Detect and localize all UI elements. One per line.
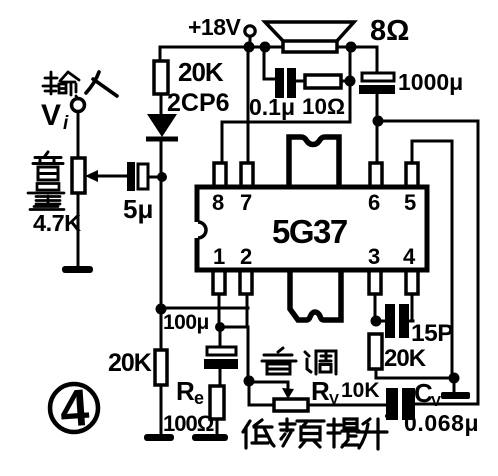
svg-text:10K: 10K bbox=[341, 379, 380, 402]
svg-text:20K: 20K bbox=[384, 345, 427, 372]
svg-text:V: V bbox=[329, 391, 339, 408]
svg-text:5μ: 5μ bbox=[123, 194, 153, 224]
svg-text:5: 5 bbox=[404, 190, 416, 215]
svg-text:4: 4 bbox=[403, 244, 416, 269]
svg-text:6: 6 bbox=[368, 190, 380, 215]
svg-text:1: 1 bbox=[213, 244, 225, 269]
svg-text:4: 4 bbox=[58, 379, 91, 439]
svg-text:0.068μ: 0.068μ bbox=[404, 410, 479, 436]
svg-text:V: V bbox=[431, 393, 441, 410]
svg-text:2CP6: 2CP6 bbox=[167, 89, 230, 117]
svg-text:0.1μ: 0.1μ bbox=[249, 94, 295, 120]
svg-text:e: e bbox=[194, 388, 204, 408]
svg-text:100Ω: 100Ω bbox=[163, 411, 214, 436]
svg-text:20K: 20K bbox=[108, 349, 152, 377]
svg-text:8Ω: 8Ω bbox=[370, 15, 409, 47]
svg-text:+18V: +18V bbox=[188, 14, 242, 40]
svg-text:2: 2 bbox=[240, 244, 252, 269]
svg-text:20K: 20K bbox=[178, 57, 224, 87]
svg-text:5G37: 5G37 bbox=[272, 213, 347, 250]
svg-text:10Ω: 10Ω bbox=[302, 94, 345, 119]
svg-text:100μ: 100μ bbox=[163, 311, 209, 334]
svg-text:V: V bbox=[41, 99, 61, 132]
svg-text:8: 8 bbox=[212, 190, 224, 215]
svg-text:4.7K: 4.7K bbox=[33, 210, 81, 236]
svg-text:7: 7 bbox=[240, 190, 252, 215]
svg-text:15P: 15P bbox=[411, 320, 453, 347]
svg-text:R: R bbox=[176, 376, 195, 406]
svg-text:R: R bbox=[311, 376, 330, 406]
svg-text:3: 3 bbox=[368, 244, 380, 269]
svg-text:i: i bbox=[63, 113, 69, 134]
svg-text:1000μ: 1000μ bbox=[398, 69, 463, 95]
